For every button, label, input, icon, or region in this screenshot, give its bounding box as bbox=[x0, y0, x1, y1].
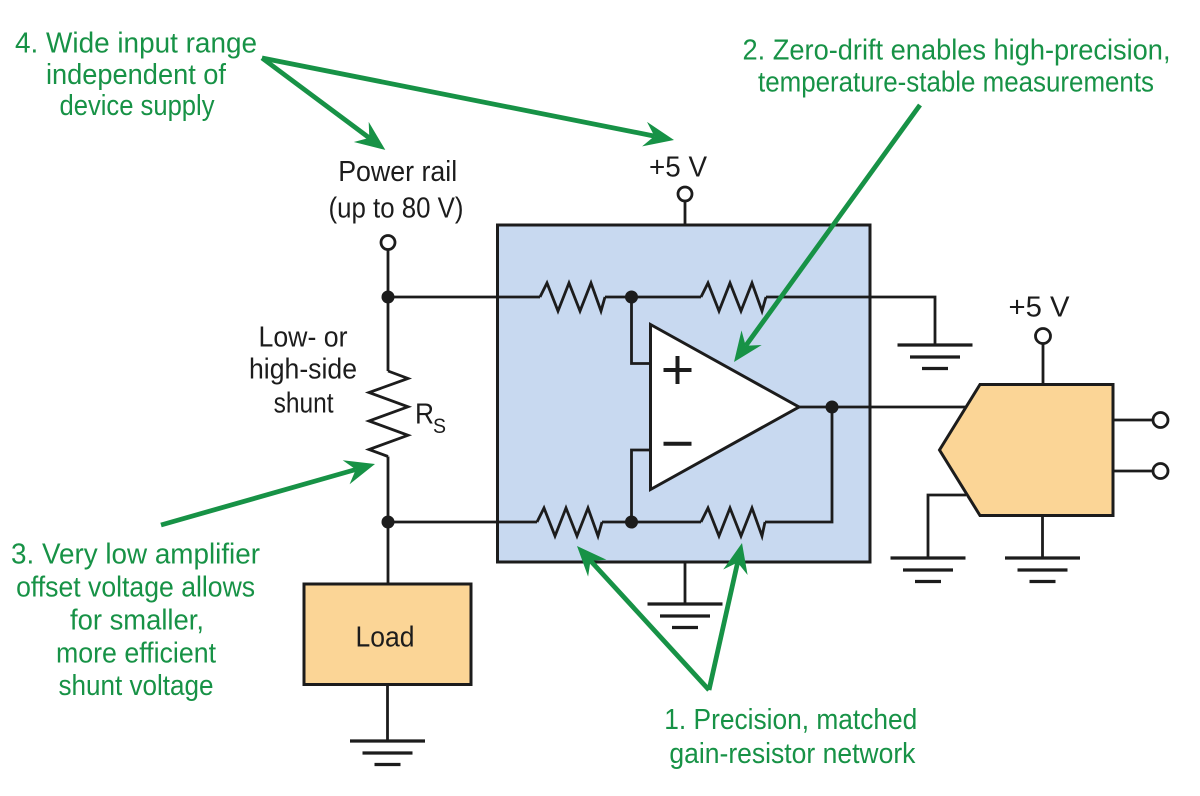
wire: hexagon output pin 2 bbox=[1113, 470, 1153, 473]
svg-text:+5 V: +5 V bbox=[649, 152, 708, 184]
svg-text:more efficient: more efficient bbox=[56, 638, 216, 670]
resistor R4 (feedback resistor) bbox=[701, 508, 765, 536]
op-amp minus sign bbox=[664, 442, 692, 446]
wire: hexagon lower-left ground stub bbox=[928, 495, 966, 558]
resistor RS (shunt) bbox=[369, 371, 408, 457]
node: load-side junction bbox=[382, 516, 395, 529]
wire: hexagon output pin 1 bbox=[1113, 419, 1153, 422]
terminal: power rail open circle bbox=[381, 236, 395, 250]
terminal: output pin 2 circle bbox=[1153, 464, 1168, 479]
svg-text:temperature-stable measurement: temperature-stable measurements bbox=[758, 67, 1154, 99]
arrow: annotation 1 to R3 bbox=[577, 546, 709, 690]
svg-text:device supply: device supply bbox=[60, 90, 215, 122]
wire: between R1 and R2 bbox=[605, 296, 701, 299]
svg-text:Low- or: Low- or bbox=[259, 322, 348, 354]
svg-text:shunt voltage: shunt voltage bbox=[59, 670, 214, 702]
svg-text:3. Very low amplifier: 3. Very low amplifier bbox=[11, 538, 260, 570]
resistor R2 (top-right gain resistor) bbox=[701, 283, 766, 311]
svg-text:S: S bbox=[433, 415, 446, 438]
wire: feedback up to output bbox=[765, 407, 832, 522]
wire: IC ground stub bbox=[684, 562, 687, 604]
wire: power rail vertical bbox=[387, 250, 390, 372]
ground: IC ground bbox=[648, 604, 723, 628]
wire: bottom rail from load node into IC bbox=[388, 521, 537, 524]
Load box bbox=[304, 584, 471, 685]
svg-text:shunt: shunt bbox=[274, 387, 334, 419]
op-amp plus sign bbox=[664, 356, 692, 384]
wire: inverting input bbox=[632, 450, 653, 522]
microcontroller hexagon bbox=[940, 385, 1114, 516]
svg-text:Power rail: Power rail bbox=[338, 156, 457, 188]
arrow: annotation 3 to shunt bbox=[161, 460, 375, 525]
svg-text:independent of: independent of bbox=[46, 59, 227, 91]
resistor R3 (bottom-left gain resistor) bbox=[537, 508, 602, 536]
svg-text:Load: Load bbox=[356, 622, 415, 654]
wire: top rail to external ground bbox=[766, 297, 935, 345]
node: shunt top junction bbox=[382, 291, 395, 304]
ground: top-right reference ground bbox=[898, 345, 973, 369]
wire: hexagon bottom ground stub bbox=[1041, 516, 1044, 559]
node: top divider junction bbox=[625, 291, 638, 304]
node: bottom divider junction bbox=[625, 516, 638, 529]
ground: hexagon bottom ground bbox=[1005, 558, 1080, 582]
arrow: annotation 1 to R4 bbox=[709, 543, 748, 690]
svg-text:offset voltage allows: offset voltage allows bbox=[16, 571, 255, 603]
svg-text:+5 V: +5 V bbox=[1009, 292, 1071, 324]
resistor R1 (top-left gain resistor) bbox=[540, 283, 605, 311]
arrow: annotation 4 to power rail bbox=[262, 58, 385, 150]
IC body (blue amplifier block) bbox=[498, 225, 871, 562]
op-amp U1 bbox=[651, 325, 800, 490]
svg-text:R: R bbox=[415, 399, 434, 431]
arrow: annotation 4 to +5V bbox=[262, 58, 674, 146]
svg-text:(up to 80 V): (up to 80 V) bbox=[329, 193, 464, 225]
node: output junction bbox=[826, 401, 839, 414]
wire: between R3 and R4 bbox=[602, 521, 701, 524]
ground: load ground bbox=[350, 741, 425, 765]
svg-text:gain-resistor network: gain-resistor network bbox=[669, 738, 915, 770]
wire: +5V supply stub into IC top bbox=[684, 201, 687, 225]
svg-text:4. Wide input range: 4. Wide input range bbox=[15, 28, 257, 60]
terminal: +5V open circle (hexagon) bbox=[1036, 329, 1051, 344]
svg-text:for smaller,: for smaller, bbox=[70, 605, 204, 637]
wire: non-inverting input bbox=[632, 297, 653, 364]
wire: power rail lower vertical to Load bbox=[387, 457, 390, 585]
arrow: annotation 2 to op-amp bbox=[734, 105, 920, 362]
terminal: +5V open circle (IC) bbox=[678, 187, 692, 201]
svg-text:2. Zero-drift enables high-pre: 2. Zero-drift enables high-precision, bbox=[743, 35, 1171, 67]
wire: top rail from shunt node into IC bbox=[388, 296, 540, 299]
ground: hexagon left ground bbox=[891, 558, 966, 582]
wire: Load to ground bbox=[386, 685, 389, 742]
svg-text:1. Precision, matched: 1. Precision, matched bbox=[664, 704, 917, 736]
svg-text:high-side: high-side bbox=[249, 353, 357, 385]
wire: op-amp output to hexagon bbox=[799, 406, 966, 409]
wire: hexagon +5V stub bbox=[1042, 344, 1045, 386]
terminal: output pin 1 circle bbox=[1153, 413, 1168, 428]
